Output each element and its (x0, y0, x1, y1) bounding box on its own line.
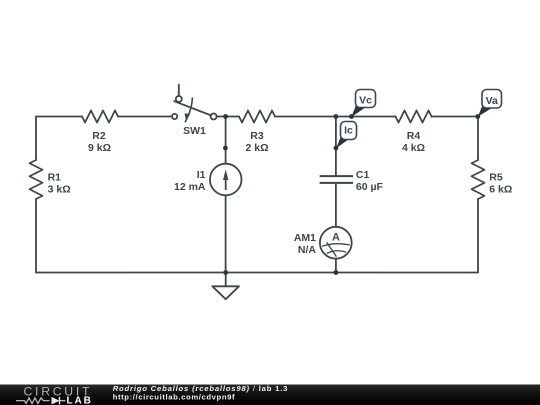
svg-text:R1: R1 (48, 171, 62, 183)
wire AM1 to bottom run (335, 259, 337, 273)
svg-text:Ic: Ic (344, 125, 353, 137)
wire bottom run (36, 272, 478, 274)
svg-text:LAB: LAB (67, 395, 93, 405)
node Vc anchor dot (349, 114, 354, 119)
junction AM1 bottom (334, 270, 339, 275)
svg-text:http://circuitlab.com/cdvpn9f: http://circuitlab.com/cdvpn9f (113, 393, 235, 402)
wire SW1 junction to R3 (217, 116, 239, 118)
capacitor C1 (320, 176, 353, 183)
wire top-left from corner to R2 (36, 116, 82, 118)
ground (212, 273, 239, 300)
switch SW1 (172, 85, 217, 122)
svg-text:3 kΩ: 3 kΩ (48, 183, 71, 195)
node flag Vc (352, 90, 376, 117)
svg-text:I1: I1 (197, 169, 206, 181)
svg-text:SW1: SW1 (183, 125, 206, 137)
wire C1 to AM1 (335, 183, 337, 227)
svg-text:Vc: Vc (359, 95, 372, 107)
footer bar (0, 385, 540, 405)
svg-text:4 kΩ: 4 kΩ (402, 142, 425, 154)
svg-text:R4: R4 (407, 130, 421, 142)
resistor R4 (396, 111, 432, 123)
logo diode (52, 397, 66, 405)
node flag Ic (336, 122, 357, 149)
wire R3 to Vc junction (275, 116, 396, 118)
junction ground / I1 bottom (223, 270, 228, 275)
svg-text:9 kΩ: 9 kΩ (88, 142, 111, 154)
resistor R1 (30, 160, 43, 199)
logo resistor squiggle (16, 398, 50, 404)
ammeter AM1 (320, 227, 352, 259)
wire left vertical upper (35, 117, 37, 161)
svg-text:12 mA: 12 mA (174, 181, 206, 193)
wire I1 bottom to bottom run (225, 195, 227, 272)
svg-text:N/A: N/A (298, 244, 317, 256)
resistor R2 (82, 111, 118, 123)
junction on wire to I1 (223, 146, 228, 151)
svg-text:C1: C1 (356, 169, 370, 181)
wire R4 to right corner (432, 116, 479, 118)
wire switch junction down to I1 (225, 117, 227, 164)
svg-text:A: A (332, 231, 340, 243)
junction node Vc branch (334, 114, 339, 119)
svg-text:R3: R3 (250, 130, 264, 142)
wire Vc junction down to C1 (335, 117, 337, 177)
node Va anchor dot (475, 114, 480, 119)
current source I1 (210, 164, 242, 196)
svg-text:6 kΩ: 6 kΩ (489, 183, 512, 195)
svg-text:60 µF: 60 µF (356, 181, 384, 193)
svg-text:R5: R5 (489, 171, 503, 183)
resistor R3 (239, 111, 275, 123)
svg-text:2 kΩ: 2 kΩ (245, 142, 268, 154)
svg-text:AM1: AM1 (294, 232, 316, 244)
wire R2 to SW1 left terminal (118, 116, 172, 118)
node Ic anchor dot (334, 146, 339, 151)
wire left vertical lower (35, 199, 37, 273)
node flag Va (478, 90, 502, 117)
wire right vertical upper (477, 117, 479, 161)
svg-text:Va: Va (486, 95, 498, 107)
svg-text:R2: R2 (92, 130, 106, 142)
wire right vertical lower (477, 199, 479, 273)
resistor R5 (472, 160, 485, 199)
junction at SW1 output (223, 114, 228, 119)
